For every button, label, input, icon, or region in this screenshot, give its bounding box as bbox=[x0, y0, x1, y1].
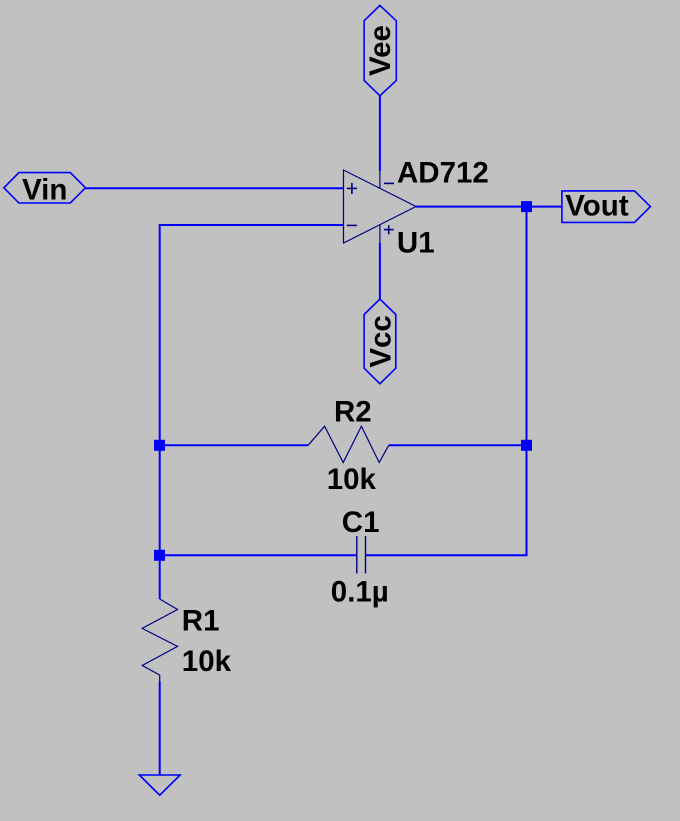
wire Vin to op-amp + input bbox=[86, 187, 344, 189]
wire feedback to op-amp - input bbox=[160, 225, 344, 445]
port Vin bbox=[4, 173, 86, 207]
wire R2 right bbox=[389, 444, 527, 446]
port Vcc bbox=[364, 299, 397, 384]
wire op-amp output to Vout bbox=[416, 206, 562, 208]
svg-text:R1: R1 bbox=[182, 604, 220, 637]
svg-text:R2: R2 bbox=[334, 395, 372, 428]
op-amp U1 bbox=[344, 170, 417, 243]
capacitor C1 bbox=[357, 536, 366, 574]
wire R2 left bbox=[160, 444, 309, 446]
junction at Vout bbox=[521, 201, 532, 212]
svg-text:U1: U1 bbox=[397, 227, 435, 260]
svg-text:Vcc: Vcc bbox=[365, 315, 398, 368]
svg-text:0.1µ: 0.1µ bbox=[331, 575, 389, 608]
wire right vertical Vout to C1 bbox=[366, 207, 527, 556]
svg-text:10k: 10k bbox=[182, 645, 232, 678]
ground bbox=[139, 775, 180, 795]
svg-text:Vout: Vout bbox=[565, 190, 629, 223]
wire R1 to ground bbox=[159, 682, 161, 776]
junction R2 left bbox=[154, 440, 165, 451]
wire R1 top bbox=[159, 555, 161, 599]
svg-text:AD712: AD712 bbox=[397, 156, 489, 189]
wire Vee to op-amp bbox=[379, 96, 381, 171]
svg-text:C1: C1 bbox=[342, 506, 380, 539]
wire left vertical R2 to C1 bbox=[159, 445, 161, 555]
junction C1 left bbox=[154, 550, 165, 561]
resistor R1 bbox=[142, 599, 177, 682]
svg-text:10k: 10k bbox=[327, 463, 377, 496]
svg-text:Vin: Vin bbox=[22, 174, 67, 207]
resistor R2 bbox=[308, 426, 389, 462]
port Vee bbox=[364, 5, 397, 95]
junction R2 right bbox=[521, 440, 532, 451]
svg-text:Vee: Vee bbox=[364, 25, 397, 76]
wire Vcc pin bbox=[379, 243, 381, 299]
wire C1 left bbox=[160, 554, 357, 556]
port Vout bbox=[562, 190, 651, 223]
